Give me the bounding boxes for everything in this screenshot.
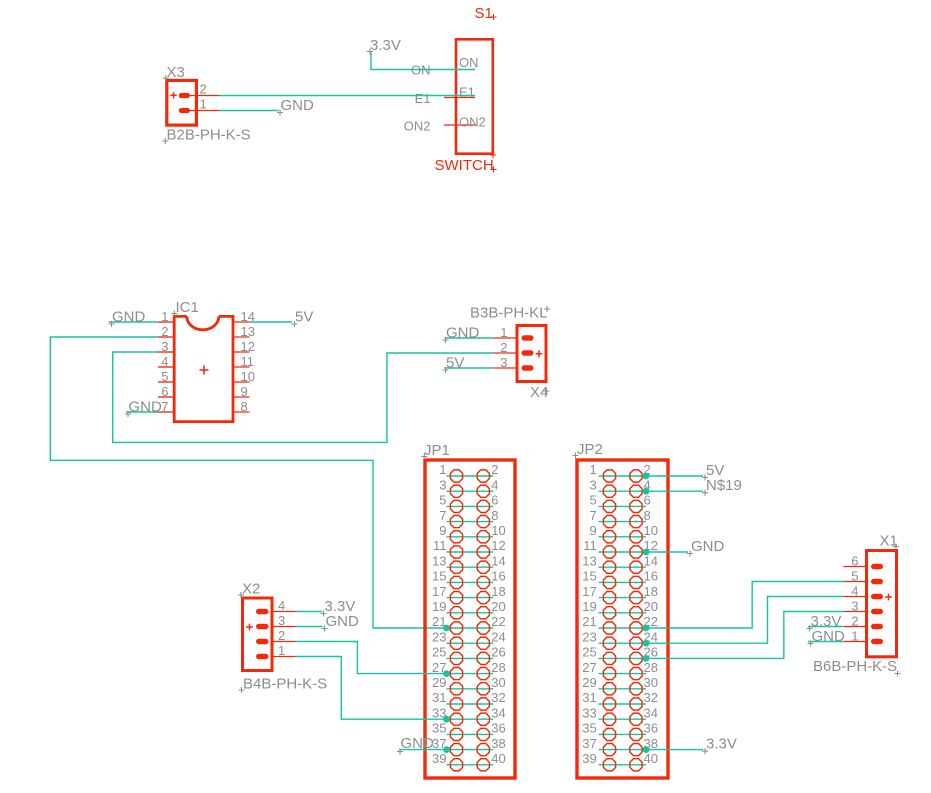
junction at JP2.24 [643,640,650,647]
JP2 pin 19 [582,599,615,619]
JP1 pin 16 [477,569,506,589]
svg-text:16: 16 [644,569,658,584]
svg-text:19: 19 [582,599,596,614]
svg-text:13: 13 [432,553,446,568]
svg-text:5V: 5V [295,309,313,326]
header JP1 [421,442,515,778]
X3 pin 2 [179,82,220,99]
3.3V label at X1.2 [807,613,842,632]
JP2 pin 1 [589,462,615,482]
svg-text:9: 9 [439,523,446,538]
IC1 pin 2 [158,324,174,339]
net label 3.3V (top) [367,37,401,55]
svg-text:38: 38 [491,736,505,751]
IC1 pin 8 [232,399,250,414]
wire 5V at X4.3 [445,367,494,369]
JP1 pin 29 [432,675,463,695]
svg-text:26: 26 [491,645,505,660]
JP2 row wire pins 29-30 [599,688,647,690]
X1 value label B6B-PH-K-S [813,658,901,677]
JP1 pin 2 [477,462,498,482]
JP2 pin 34 [630,705,658,725]
3.3V label at JP2.38 [702,736,737,755]
JP1 row wire pins 37-38 [447,749,494,751]
junction at JP1.33 [443,716,450,723]
svg-text:24: 24 [491,629,505,644]
JP2 pin 37 [582,736,615,756]
svg-text:3: 3 [278,613,285,628]
X1 pin 6 [843,554,883,570]
JP1 pin 3 [439,477,462,497]
svg-text:3: 3 [589,477,596,492]
svg-text:30: 30 [644,675,658,690]
svg-text:8: 8 [491,508,498,523]
X4 pin 2 [494,340,534,356]
JP2 row wire pins 39-40 [599,764,647,766]
svg-text:2: 2 [491,462,498,477]
JP1 pin 6 [477,493,498,513]
JP2 row wire pins 31-32 [599,703,647,705]
JP1 pin 19 [432,599,463,619]
svg-text:GND: GND [401,735,435,752]
svg-text:1: 1 [200,97,207,112]
JP2 pin 18 [630,584,658,604]
JP1 row wire pins 35-36 [447,733,494,735]
svg-text:GND: GND [446,325,480,342]
svg-text:X2: X2 [242,581,260,598]
svg-text:22: 22 [491,614,505,629]
svg-text:6: 6 [644,493,651,508]
JP1 pin 30 [477,675,506,695]
svg-text:3: 3 [161,339,168,354]
IC1 pin 14 [232,309,255,324]
JP2 pin 3 [589,477,615,497]
X4 pin 3 [494,355,534,371]
JP1 pin 33 [432,705,463,725]
svg-text:6: 6 [491,493,498,508]
JP1 pin 34 [477,705,506,725]
svg-text:17: 17 [582,584,596,599]
JP2 pin 20 [630,599,658,619]
wire E1: X3.2 to S1.E1 [220,95,476,97]
X1 pin 2 [843,614,883,630]
JP1 pin 40 [477,751,506,771]
JP2 pin 15 [582,569,615,589]
X2 pin 2 [256,628,296,644]
svg-text:ON2: ON2 [404,119,431,134]
JP2 pin 32 [630,690,658,710]
svg-text:5: 5 [589,493,596,508]
svg-text:6: 6 [161,384,168,399]
JP2 row wire pins 15-16 [599,581,647,583]
svg-text:5V: 5V [446,355,464,372]
JP2 pin 11 [583,538,615,558]
IC1 pin 4 [158,354,174,369]
JP2 pin 25 [582,645,615,665]
X4 value label [530,384,550,401]
svg-text:2: 2 [200,82,207,97]
wire 3.3V at JP2.38 [646,749,703,751]
svg-text:3: 3 [439,477,446,492]
JP2 pin 17 [582,584,615,604]
X1 pin 5 [843,569,883,585]
svg-text:7: 7 [439,508,446,523]
JP2 row wire pins 37-38 [599,749,647,751]
svg-text:34: 34 [644,705,658,720]
svg-text:ON: ON [459,55,479,70]
wire GND at X1.1 [808,641,843,643]
JP1 row wire pins 3-4 [447,490,494,492]
JP2 pin 30 [630,675,658,695]
junction at JP1.37 [443,746,450,753]
JP2 pin 10 [630,523,658,543]
GND label at IC1.1 [109,309,146,328]
svg-text:9: 9 [241,384,248,399]
GND label at X4.1 [443,325,480,344]
svg-text:39: 39 [582,751,596,766]
svg-text:34: 34 [491,705,505,720]
IC1 pin 10 [232,369,255,384]
wire X2.1 to JP1.33 [296,657,447,720]
svg-text:27: 27 [582,660,596,675]
JP1 row wire pins 23-24 [447,642,494,644]
wire GND at IC1.7 [126,411,158,413]
svg-text:19: 19 [432,599,446,614]
wire GND at JP1.37 [399,749,447,751]
svg-text:15: 15 [432,569,446,584]
svg-text:4: 4 [161,354,168,369]
svg-text:2: 2 [278,628,285,643]
switch S1 [404,5,497,174]
svg-text:GND: GND [326,613,360,630]
JP1 pin 5 [439,493,462,513]
GND label at X1.1 [808,628,846,647]
svg-text:ON2: ON2 [459,115,486,130]
svg-text:E1: E1 [415,91,431,106]
svg-text:20: 20 [491,599,505,614]
svg-text:3.3V: 3.3V [370,37,401,54]
JP2 pin 23 [582,629,615,649]
op-amp IC1 [158,299,255,422]
svg-text:35: 35 [432,721,446,736]
X2 pin 4 [256,598,296,614]
JP1 pin 31 [432,690,463,710]
svg-text:8: 8 [644,508,651,523]
JP2 row wire pins 35-36 [599,733,647,735]
JP1 pin 37 [432,736,463,756]
X3 value label B2B-PH-K-S [162,127,250,145]
JP1 pin 15 [432,569,463,589]
JP1 pin 18 [477,584,506,604]
wire JP2.26 to X1.3 [646,612,843,659]
S1 pin E1 [415,85,475,107]
svg-text:GND: GND [691,538,725,555]
svg-text:JP2: JP2 [577,441,603,458]
svg-text:29: 29 [432,675,446,690]
JP2 pin 27 [582,660,615,680]
X1 pin 3 [843,599,883,615]
JP1 row wire pins 25-26 [447,657,494,659]
svg-text:21: 21 [432,614,446,629]
connector X2 [238,581,327,694]
X3 name label [163,64,185,81]
svg-text:32: 32 [644,690,658,705]
JP2 pin 40 [630,751,658,771]
svg-text:5: 5 [439,493,446,508]
JP1 pin 4 [477,477,498,497]
JP2 pin 38 [630,736,658,756]
JP1 row wire pins 19-20 [447,612,494,614]
svg-text:B4B-PH-K-S: B4B-PH-K-S [243,676,327,693]
IC1 pin 7 [158,399,174,414]
svg-text:18: 18 [644,584,658,599]
svg-text:GND: GND [812,628,846,645]
junction at JP1.27 [443,670,450,677]
JP2 row wire pins 1-2 [599,475,647,477]
svg-text:X3: X3 [167,64,185,81]
GND label at IC1.7 [125,399,162,418]
svg-text:X4: X4 [530,384,548,401]
JP2 pin 16 [630,569,658,589]
IC1 pin 12 [232,339,255,354]
svg-text:39: 39 [432,751,446,766]
JP2 row wire pins 17-18 [599,597,647,599]
header JP2 [573,441,669,778]
svg-text:13: 13 [582,553,596,568]
JP2 row wire pins 3-4 [599,490,647,492]
JP2 row wire pins 11-12 [599,551,647,553]
svg-text:23: 23 [432,629,446,644]
svg-text:35: 35 [582,721,596,736]
JP2 pin 31 [582,690,615,710]
JP1 pin 13 [432,553,463,573]
junction at JP2.26 [643,655,650,662]
svg-text:20: 20 [644,599,658,614]
X2 pin 3 [256,613,296,629]
X2 value label B4B-PH-K-S [239,676,328,694]
svg-text:IC1: IC1 [176,299,199,316]
svg-text:E1: E1 [459,85,475,100]
connector X1 [813,533,901,677]
svg-text:2: 2 [161,324,168,339]
JP1 pin 10 [477,523,506,543]
3.3V label at X2.4 [321,598,356,617]
JP1 row wire pins 11-12 [447,551,494,553]
JP1 row wire pins 9-10 [447,536,494,538]
JP1 row wire pins 33-34 [447,718,494,720]
JP1 pin 35 [432,721,463,741]
svg-text:4: 4 [851,584,858,599]
JP1 pin 14 [477,553,506,573]
JP2 pin 21 [582,614,615,634]
JP2 pin 35 [582,721,615,741]
svg-text:37: 37 [582,736,596,751]
JP2 row wire pins 19-20 [599,612,647,614]
wire IC1.2 to JP1.21 [50,337,446,628]
JP1 row wire pins 7-8 [447,521,494,523]
JP1 pin 1 [439,462,462,482]
svg-text:40: 40 [644,751,658,766]
svg-text:8: 8 [241,399,248,414]
svg-text:B2B-PH-K-S: B2B-PH-K-S [167,127,251,144]
JP1 row wire pins 13-14 [447,566,494,568]
JP1 pin 12 [477,538,506,558]
JP1 pin 22 [477,614,506,634]
GND label at X3.1 [277,97,314,116]
svg-text:13: 13 [241,324,255,339]
svg-text:1: 1 [161,309,168,324]
S1 origin mark [490,152,496,158]
JP1 pin 9 [439,523,462,543]
svg-text:3: 3 [851,599,858,614]
wire 3.3V at X1.2 [808,626,843,628]
S1 pin ON2 [404,115,486,134]
X1 pin 1 [843,629,883,645]
wire IC1.3 to X4.2 [113,352,494,442]
JP2 pin 33 [582,705,615,725]
JP2 pin 6 [630,493,651,513]
svg-text:31: 31 [582,690,596,705]
svg-text:3: 3 [500,355,507,370]
svg-text:N$19: N$19 [706,477,742,494]
GND label at JP2.12 [687,538,725,557]
junction at JP2.12 [643,549,650,556]
svg-text:12: 12 [241,339,255,354]
wire 3.3V to S1.ON [371,53,475,70]
JP1 pin 17 [432,584,463,604]
svg-text:3.3V: 3.3V [706,736,737,753]
JP2 pin 29 [582,675,615,695]
svg-text:2: 2 [851,614,858,629]
svg-text:B3B-PH-KL: B3B-PH-KL [470,305,548,322]
JP2 pin 2 [630,462,651,482]
svg-text:1: 1 [851,629,858,644]
IC1 pin 13 [232,324,255,339]
wire GND at X2.3 [296,626,323,628]
svg-text:29: 29 [582,675,596,690]
wire JP2.24 to X1.4 [646,597,843,644]
JP2 row wire pins 25-26 [599,657,647,659]
JP1 row wire pins 39-40 [447,764,494,766]
JP1 row wire pins 15-16 [447,581,494,583]
JP1 row wire pins 31-32 [447,703,494,705]
svg-text:GND: GND [129,399,163,416]
junction at JP2.22 [643,625,650,632]
IC1 pin 9 [232,384,250,399]
JP1 pin 20 [477,599,506,619]
JP1 pin 26 [477,645,506,665]
JP1 row wire pins 21-22 [447,627,494,629]
svg-text:1: 1 [278,643,285,658]
svg-text:25: 25 [432,645,446,660]
JP1 pin 23 [432,629,463,649]
JP2 pin 9 [589,523,615,543]
wire 5V at JP2.2 [646,475,703,477]
X2 name label [238,581,260,599]
5V label at IC1.14 [292,309,314,328]
JP1 pin 32 [477,690,506,710]
X4 pin 1 [494,325,534,341]
IC1 pin 1 [158,309,174,324]
JP1 name label [421,442,450,460]
svg-text:15: 15 [582,569,596,584]
N$19 label at JP2.4 [702,477,742,496]
JP2 row wire pins 13-14 [599,566,647,568]
svg-text:31: 31 [432,690,446,705]
svg-text:11: 11 [583,538,597,553]
5V label at JP2.2 [702,462,724,481]
X1 pin 4 [843,584,883,600]
JP1 pin 39 [432,751,463,771]
connector X3 [162,64,250,144]
IC1 pin 3 [158,339,174,354]
junction at JP2.38 [643,746,650,753]
svg-text:40: 40 [491,751,505,766]
svg-text:1: 1 [500,325,507,340]
X2 pin 1 [256,643,296,659]
svg-text:12: 12 [491,538,505,553]
JP2 pin 4 [630,477,651,497]
S1 pin ON [411,55,479,78]
svg-text:11: 11 [433,538,447,553]
wire GND at X4.1 [445,337,494,339]
wire X2.2 to JP1.27 [296,642,447,674]
JP2 row wire pins 27-28 [599,673,647,675]
JP1 pin 7 [439,508,462,528]
svg-text:21: 21 [582,614,596,629]
IC1 name label [171,299,199,317]
wire JP2.22 to X1.5 [646,582,843,629]
svg-text:7: 7 [589,508,596,523]
JP1 row wire pins 1-2 [447,475,494,477]
JP2 pin 5 [589,493,615,513]
5V label at X4.3 [443,355,465,374]
svg-text:9: 9 [589,523,596,538]
svg-text:5: 5 [161,369,168,384]
junction at JP2.2 [643,473,650,480]
JP2 pin 26 [630,645,658,665]
wire GND at JP2.12 [646,551,688,553]
JP2 pin 12 [630,538,658,558]
svg-text:1: 1 [439,462,446,477]
JP2 row wire pins 5-6 [599,505,647,507]
svg-text:5: 5 [851,569,858,584]
svg-text:14: 14 [644,553,658,568]
JP2 row wire pins 7-8 [599,521,647,523]
JP2 pin 13 [582,553,615,573]
svg-text:36: 36 [644,721,658,736]
svg-text:28: 28 [491,660,505,675]
wire N$19 at JP2.4 [646,490,703,492]
X3 pin 1 [179,97,220,114]
svg-text:36: 36 [491,721,505,736]
svg-text:18: 18 [491,584,505,599]
svg-text:JP1: JP1 [424,442,450,459]
svg-text:10: 10 [644,523,658,538]
JP2 pin 24 [630,629,658,649]
IC1 pin 11 [232,354,254,369]
svg-text:2: 2 [500,340,507,355]
JP2 pin 39 [582,751,615,771]
svg-text:B6B-PH-K-S: B6B-PH-K-S [813,658,897,675]
wire GND at IC1.1 [109,321,158,323]
S1 name label [475,5,497,22]
GND label at X2.3 [322,613,360,632]
JP1 row wire pins 27-28 [447,673,494,675]
svg-text:6: 6 [851,554,858,569]
svg-text:33: 33 [582,705,596,720]
JP2 row wire pins 33-34 [599,718,647,720]
